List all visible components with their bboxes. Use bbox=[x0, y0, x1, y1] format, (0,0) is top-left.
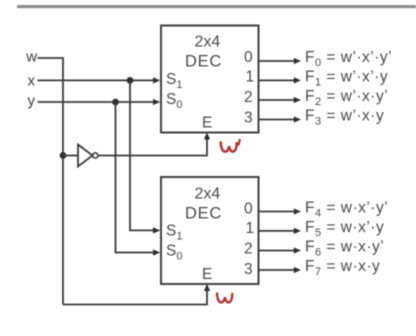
svg-text:0: 0 bbox=[244, 200, 253, 217]
wire U1 output 0 bbox=[259, 60, 297, 62]
junction y bbox=[112, 99, 119, 106]
svg-text:y: y bbox=[28, 92, 36, 109]
svg-text:w: w bbox=[25, 49, 37, 66]
decoder U2 box bbox=[161, 177, 259, 284]
svg-text:E: E bbox=[202, 115, 212, 132]
wire inverter output to top decoder E bbox=[98, 137, 207, 156]
svg-text:0: 0 bbox=[244, 49, 253, 66]
wire w to bottom decoder E bbox=[63, 288, 207, 305]
svg-text:2x4: 2x4 bbox=[195, 186, 221, 203]
wire w vertical bbox=[62, 57, 64, 304]
svg-text:E: E bbox=[202, 266, 212, 283]
wire w horizontal bbox=[38, 57, 64, 59]
svg-text:2: 2 bbox=[244, 89, 253, 106]
svg-text:DEC: DEC bbox=[185, 53, 222, 71]
svg-text:2: 2 bbox=[244, 241, 253, 258]
wire U1 output 3 bbox=[259, 119, 297, 121]
red annotation w (enable of U2) bbox=[217, 294, 232, 303]
wire U2 output 0 bbox=[259, 211, 297, 213]
svg-text:1: 1 bbox=[246, 69, 255, 86]
decoder U1 box bbox=[161, 26, 259, 133]
wire U1 output 1 bbox=[259, 79, 297, 81]
wire y to bottom decoder S0 bbox=[116, 102, 157, 253]
wire x to top decoder S1 bbox=[38, 79, 157, 81]
inverter gate bbox=[78, 145, 93, 167]
svg-text:DEC: DEC bbox=[185, 205, 222, 223]
svg-text:3: 3 bbox=[244, 261, 253, 278]
svg-text:1: 1 bbox=[246, 220, 255, 237]
red annotation w' (enable of U1) bbox=[221, 143, 237, 152]
svg-text:x: x bbox=[28, 73, 36, 90]
wire U1 output 2 bbox=[259, 99, 297, 101]
wire U2 output 1 bbox=[259, 230, 297, 232]
wire U2 output 2 bbox=[259, 250, 297, 252]
junction x bbox=[127, 77, 134, 84]
svg-text:3: 3 bbox=[244, 109, 253, 126]
wire y to top decoder S0 bbox=[38, 101, 157, 103]
junction w / inverter input bbox=[60, 152, 67, 159]
wire x to bottom decoder S1 bbox=[130, 80, 156, 230]
svg-text:2x4: 2x4 bbox=[195, 34, 221, 51]
wire U2 output 3 bbox=[259, 269, 297, 271]
